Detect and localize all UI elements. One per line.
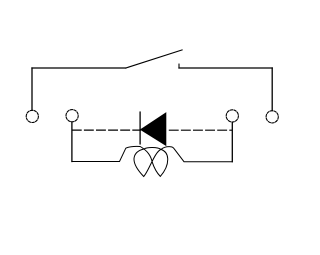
- wire right vertical drop: [271, 68, 273, 111]
- terminal circle outer-right: [266, 111, 278, 123]
- switch SW1 right contact tick: [178, 64, 180, 68]
- wire inner-right vertical: [231, 122, 233, 162]
- switch SW1 lever: [126, 50, 182, 68]
- dashed link right: [166, 129, 232, 131]
- wire left vertical drop: [31, 68, 33, 110]
- coil L1 crossed-loop winding with left and right leads: [72, 146, 232, 176]
- diode D1 triangle: [141, 113, 166, 145]
- wire top-left horizontal: [32, 67, 126, 69]
- dashed link left: [72, 129, 140, 131]
- terminal circle inner-right: [226, 110, 238, 122]
- wire inner-left vertical: [71, 122, 73, 162]
- wire top-right horizontal: [179, 67, 272, 69]
- terminal circle inner-left: [66, 110, 78, 122]
- terminal circle outer-left: [26, 110, 38, 122]
- diode D1 cathode bar: [139, 112, 141, 144]
